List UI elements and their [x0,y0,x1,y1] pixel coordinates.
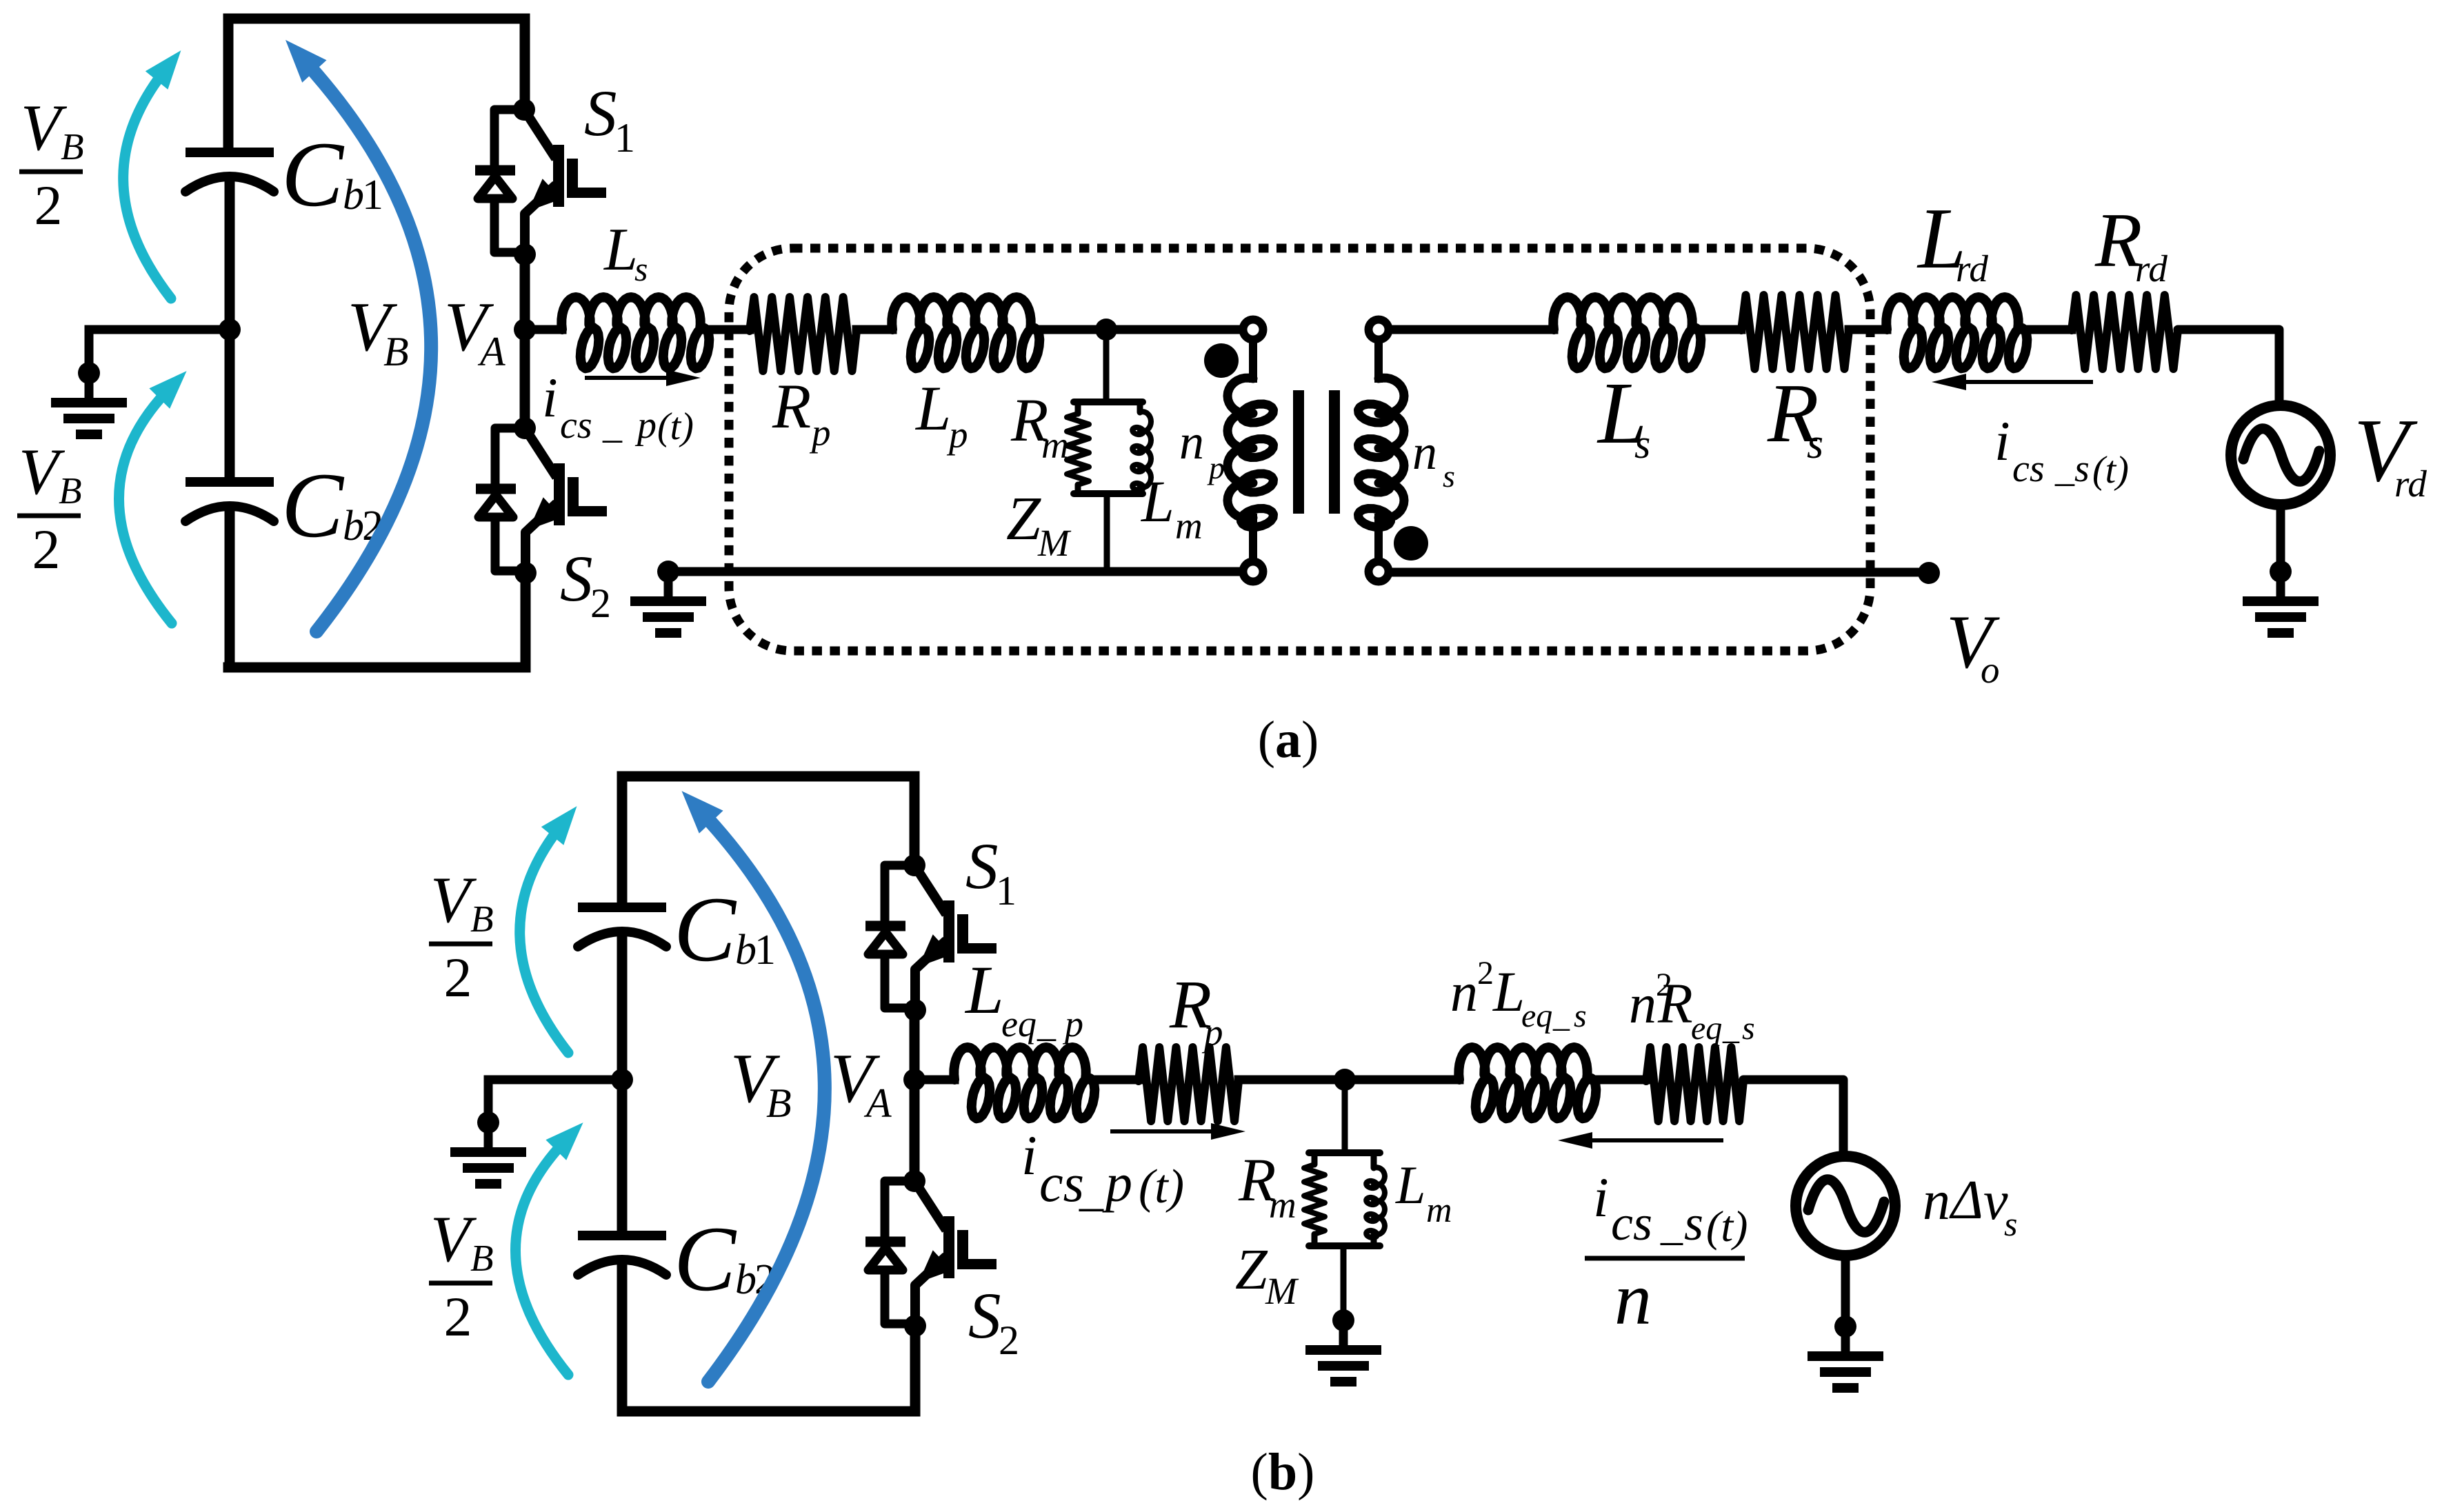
node VA (b) [903,1069,925,1091]
label i_cs_s(t) (a) [1994,410,2129,492]
label Rm (b) [1238,1147,1296,1226]
svg-text:R: R [1657,971,1693,1035]
svg-text:Δ: Δ [1949,1170,1983,1231]
wire: (b) right rail to S1 [910,776,920,865]
label Vrd [2354,401,2427,505]
wire: Rm upper lead (a) [1075,402,1081,414]
svg-text:1: 1 [754,927,776,974]
svg-text:m: m [1175,505,1203,547]
wire: (a) top rail [228,14,525,24]
svg-text:n: n [1450,962,1478,1023]
svg-text:_: _ [2054,447,2075,490]
svg-text:2: 2 [590,581,611,626]
resistor n2·Req_s [1646,1047,1743,1121]
svg-text:n: n [1923,1171,1950,1231]
label n2Leq_s [1450,955,1587,1034]
svg-text:_: _ [1037,1003,1057,1045]
wire: ZM box top bar (a) [1074,399,1143,405]
label ZM (a) [1006,485,1072,564]
wire: S2 to bottom rail (b) [910,1326,921,1411]
arrow: i_cs_s(t)/n current direction (b) [1558,1132,1723,1149]
terminal: primary bottom [1243,562,1263,582]
wire: Lrd to Rrd [2018,325,2072,334]
label nΔv_s [1923,1170,2017,1243]
svg-text:R: R [772,371,811,441]
wire: ZM box bottom bar (a) [1074,490,1143,497]
label VB/2 (a lower) [17,435,82,581]
svg-text:B: B [383,329,409,374]
wire: midpoint to Cb2 (b) [617,1080,628,1231]
label Leq_p [964,951,1083,1045]
inductor Lp [892,297,1039,368]
svg-text:i: i [1994,410,2010,472]
svg-text:C: C [674,1208,737,1311]
transistor S1 (b) [865,854,997,1021]
node VA (a) [514,319,536,341]
terminal: secondary top [1369,320,1389,340]
label Lm (b) [1395,1155,1452,1230]
wire: Lm upper lead (a) [1137,402,1143,412]
svg-text:S: S [968,1279,1001,1352]
svg-text:S: S [560,542,593,615]
label VA (a) [444,288,505,374]
wire: node down to ZM box (a) [1103,330,1110,402]
svg-text:S: S [584,77,617,150]
svg-text:p: p [809,412,831,454]
wire: down to ground dot (b) [484,1080,493,1122]
wire: bottom return to primary winding (a) [668,567,1240,576]
svg-text:2: 2 [444,1285,472,1348]
svg-text:b: b [343,503,364,550]
svg-text:B: B [59,470,82,512]
wire: (b) top rail [622,772,914,782]
label Rm (a) [1010,387,1069,466]
label Lm (a) [1140,468,1203,547]
wire: Lp to magnetizing node [1030,325,1106,334]
node Vo [1918,562,1940,584]
transistor S2 (b) [865,1170,997,1337]
svg-text:C: C [674,878,737,981]
source nΔv_s (AC) [1796,1156,1895,1256]
boundary: dashed transformer-model box (a) [729,248,1870,651]
label S1 [584,77,635,161]
transistor S2 (IGBT with antiparallel diode) [476,417,607,584]
svg-text:Z: Z [1006,485,1041,553]
svg-text:s: s [2004,1204,2017,1243]
wire: source to ground (b) [1841,1256,1850,1327]
wire: Rp to Lp [857,325,892,334]
transformer core [1293,390,1340,514]
wire: S1 to VA (b) [910,1010,920,1080]
svg-text:n: n [1614,1258,1652,1340]
svg-text:i: i [542,366,558,429]
wire: Cb2 to bottom rail [225,507,235,667]
svg-text:b: b [735,1256,757,1303]
terminal: primary top [1243,320,1263,340]
wire: primary terminal to winding [1249,341,1257,379]
wire: Rs to Lrd (crosses box edge) [1849,325,1887,334]
svg-text:A: A [863,1080,892,1126]
wire: Rm lower lead (b) [1312,1234,1318,1246]
node: magnetizing tap (b) [1334,1069,1356,1091]
svg-text:(a): (a) [1258,711,1319,769]
polarity dot: secondary [1394,526,1428,561]
label ns [1412,425,1455,494]
inductor Ls (secondary leakage) [1553,297,1701,368]
label Rs [1767,367,1823,467]
svg-text:m: m [1426,1191,1452,1230]
label Rp (b) [1169,966,1223,1054]
svg-text:s: s [1443,458,1455,494]
svg-text:n: n [1179,414,1204,470]
arrow: VB across bridge (b) [682,791,825,1382]
label Cb1 [281,123,383,226]
wire: (a) right rail to S1 [520,19,530,110]
terminal: secondary bottom [1369,562,1389,582]
ground: source return (b) [1808,1316,1883,1388]
svg-text:_: _ [1660,1200,1683,1249]
arrow: VB/2 across Cb2 (b) [516,1122,583,1375]
svg-text:m: m [1269,1184,1296,1226]
wire: VA to Leq_p [914,1076,954,1085]
svg-text:2: 2 [32,518,61,581]
label Ls (a) [603,216,648,288]
wire: node to primary winding terminal [1106,325,1240,334]
inductor n2·Leq_s [1459,1047,1596,1118]
wire: secondary bottom to Vo node [1392,568,1919,577]
svg-text:s: s [1634,421,1650,467]
wire: Cb1 to midpoint node [225,178,235,330]
label Vo [1946,600,2000,691]
wire: node VA to S2 [520,330,530,428]
capacitor Cb2 (b) [578,1236,666,1275]
label VB (a) [348,288,409,374]
svg-text:i: i [1021,1124,1037,1187]
svg-text:s: s [634,250,648,288]
svg-text:s: s [1742,1010,1755,1047]
svg-text:s: s [1807,421,1823,467]
arrow: VB/2 across Cb1 (a) [123,50,181,299]
svg-text:Z: Z [1235,1238,1268,1302]
svg-text:_: _ [1079,1163,1104,1216]
resistor Rrd [2072,295,2178,369]
inductor Lrd [1886,297,2027,368]
wire: n2Leq_s to n2Req_s [1587,1076,1646,1085]
svg-text:cs: cs [1039,1153,1084,1213]
wire: Rm lower lead (a) [1075,485,1081,494]
label VB/2 (b upper) [429,863,494,1009]
label Cb2 (b) [674,1208,776,1311]
wire: (b) left rail to Cb1 [617,776,628,903]
resistor Rp [750,297,857,371]
wire: Rp to magnetizing node (b) [1239,1076,1345,1085]
node: capacitor midpoint (a) [219,319,241,341]
svg-text:s: s [1684,1196,1703,1251]
capacitor Cb1 (b) [578,907,666,947]
node: capacitor midpoint (b) [611,1069,633,1091]
svg-text:p: p [634,404,657,447]
resistor Rs [1741,295,1849,369]
wire: (a) left rail upper lead to Cb1 [223,19,234,148]
wire: primary winding to bottom terminal [1249,518,1257,561]
svg-text:L: L [964,951,1004,1028]
label VB (b) [730,1040,792,1126]
svg-text:2: 2 [999,1318,1019,1363]
wire: midpoint node to Cb2 [225,330,235,477]
svg-text:(t): (t) [1139,1160,1184,1213]
svg-text:_: _ [1552,998,1570,1034]
wire: S2 emitter to bottom rail [521,573,531,667]
wire: Cb1 to midpoint (b) [617,933,628,1080]
arrow: i_cs_p(t) current direction (a) [585,370,701,386]
svg-text:2: 2 [1477,955,1494,991]
wire: midpoint to ground (a) [89,325,230,334]
wire: ZM box to ground (b) [1341,1246,1347,1320]
svg-text:eq: eq [1001,1003,1037,1045]
source Vrd (AC) [2231,405,2330,505]
svg-text:L: L [914,373,951,443]
inductor Ls (primary series) [561,297,709,368]
wire: VA to S2 (b) [910,1080,920,1181]
wire: n2Req_s to source [1743,1080,1843,1156]
svg-text:B: B [470,1237,494,1279]
svg-text:2: 2 [34,174,63,236]
winding ns (transformer secondary) [1359,378,1405,527]
wire: down to ground dot (a) [85,330,94,373]
svg-text:B: B [766,1080,792,1126]
svg-text:1: 1 [362,172,383,219]
node: magnetizing branch tap (a) [1095,319,1117,341]
svg-text:p: p [1102,1153,1132,1213]
ground: magnetizing branch (b) [1305,1309,1381,1382]
transistor S1 (IGBT with antiparallel diode) [475,99,606,265]
label Ls (secondary) [1596,364,1650,467]
svg-text:b: b [343,172,364,219]
label VA (b) [830,1040,892,1126]
label np [1179,414,1225,485]
wire: VA to Ls [525,325,562,334]
label Lp [914,373,968,456]
svg-text:p: p [1062,1003,1083,1045]
svg-text:M: M [1265,1270,1299,1312]
ground: (a) DC-link midpoint [51,362,127,434]
inductor Leq_p [954,1047,1094,1118]
svg-text:m: m [1041,424,1069,466]
polarity dot: primary [1204,343,1239,378]
wire: Cb2 to bottom rail (b) [617,1261,628,1411]
svg-text:B: B [61,125,84,168]
inductor Lm (a) [1132,412,1151,490]
ground: T-network return (a) [630,561,706,633]
svg-text:1: 1 [996,868,1017,914]
svg-text:L: L [1140,468,1174,534]
svg-text:M: M [1037,522,1072,564]
svg-text:cs: cs [2012,447,2045,490]
label VB/2 (b lower) [429,1202,494,1348]
wire: node down to ZM box (b) [1342,1080,1348,1153]
wire: Lm lower lead (a) [1137,487,1143,494]
wire: secondary winding to bottom terminal [1374,518,1383,561]
svg-text:C: C [281,123,345,226]
svg-text:s: s [2074,447,2090,490]
svg-text:cs: cs [1611,1196,1652,1251]
svg-text:b: b [735,927,757,974]
wire: Rm upper lead (b) [1312,1153,1318,1165]
ground: Vrd return [2243,561,2319,633]
wire: Lm upper lead (b) [1371,1153,1377,1168]
wire: Vrd to ground [2276,505,2285,572]
resistor Rm (b) [1304,1165,1325,1234]
svg-text:rd: rd [2394,463,2427,505]
winding np (transformer primary) [1228,378,1274,527]
svg-text:p: p [1207,450,1225,485]
svg-text:n: n [1629,974,1656,1035]
wire: secondary terminal to Ls [1392,325,1554,334]
wire: (a) bottom rail [228,663,525,673]
svg-text:cs: cs [560,404,592,447]
svg-text:1: 1 [614,115,635,161]
arrow: i_cs_s(t) current direction (a) [1932,374,2093,390]
label VB/2 (a upper) [19,91,84,236]
svg-text:p: p [946,414,968,456]
svg-text:rd: rd [1956,248,1988,290]
svg-text:eq: eq [1521,998,1552,1034]
svg-text:A: A [477,329,505,374]
svg-text:_: _ [602,404,623,447]
label Cb2 [281,454,383,557]
wire: S1 emitter to node VA [520,254,530,330]
svg-text:o: o [1981,649,2000,691]
arrow: VB/2 across Cb2 (a) [119,371,187,623]
svg-text:S: S [965,829,999,903]
svg-text:L: L [603,216,638,283]
label S2 (b) [968,1279,1019,1363]
svg-text:2: 2 [444,946,472,1009]
wire: Lm lower lead (b) [1371,1234,1377,1246]
label Rrd [2094,198,2167,290]
wire: ZM box to bottom rail (a) [1104,494,1110,572]
label Cb1 (b) [674,878,776,981]
label i_cs_p(t) (a) [542,366,694,448]
svg-text:eq: eq [1691,1010,1722,1047]
label S1 (b) [965,829,1017,914]
svg-text:(t): (t) [1706,1202,1748,1251]
arrow: VB/2 across Cb1 (b) [520,806,577,1053]
label i_cs_p(t) (b) [1021,1124,1184,1216]
svg-text:p: p [1201,1011,1223,1054]
inductor Lm (b) [1366,1167,1385,1238]
wire: ZM box bottom bar (b) [1309,1242,1380,1249]
svg-text:_: _ [1722,1010,1740,1047]
svg-text:L: L [1492,960,1525,1023]
label n2Req_s [1629,967,1755,1047]
svg-text:rd: rd [2135,248,2167,290]
svg-text:C: C [281,454,345,557]
arrow: i_cs_p(t) current direction (b) [1110,1123,1245,1140]
arrow: VB across bridge (a) [286,40,431,632]
svg-text:(t): (t) [2092,449,2129,492]
ground: (b) DC-link midpoint [450,1111,526,1184]
label S2 [560,542,611,626]
wire: Leq_p to Rp (b) [1085,1076,1139,1085]
svg-text:(t): (t) [657,405,694,448]
wire: Ls to Rp [700,325,750,334]
svg-text:L: L [1395,1155,1425,1215]
wire: ZM box top bar (b) [1309,1149,1380,1156]
capacitor Cb2 [186,482,274,521]
wire: node to n2Leq_s [1345,1076,1459,1085]
label i_cs_s(t)/n fraction (b) [1585,1166,1748,1340]
wire: Ls to Rs [1692,325,1741,334]
svg-text:B: B [470,898,494,940]
svg-text:n: n [1412,425,1437,480]
svg-text:i: i [1593,1166,1609,1229]
wire: (b) bottom rail [622,1407,915,1417]
capacitor Cb1 [186,152,274,192]
label ZM (b) [1235,1238,1299,1312]
label Rp [772,371,831,454]
wire: Rrd to source Vrd [2178,330,2279,405]
wire: secondary terminal to winding [1374,341,1383,379]
svg-text:s: s [1574,998,1587,1034]
label Lrd [1916,191,1988,290]
resistor Rm (a) [1067,414,1089,485]
wire: midpoint to ground (b) [488,1076,622,1085]
svg-text:(b): (b) [1251,1443,1315,1501]
resistor Rp (b) [1139,1047,1239,1121]
